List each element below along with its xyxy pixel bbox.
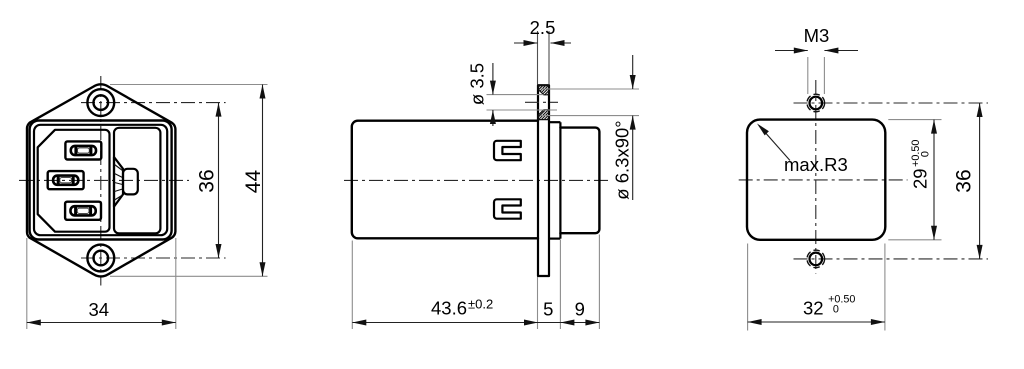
- dimension 34: [27, 322, 176, 324]
- front view flange outline: [27, 84, 175, 276]
- ext line 32 right: [884, 244, 886, 331]
- dimension 36 right: [979, 103, 981, 259]
- ext line 34 right: [175, 238, 177, 329]
- dimension 44: [262, 85, 264, 277]
- svg-text:43.6±0.2: 43.6±0.2: [431, 297, 493, 319]
- svg-text:ø 3.5: ø 3.5: [467, 63, 488, 105]
- svg-text:max.R3: max.R3: [784, 154, 848, 175]
- ext line 5/9 boundary: [559, 240, 561, 329]
- svg-text:32+0.500: 32+0.500: [803, 294, 855, 319]
- ext line dia6.3 bottom: [541, 115, 639, 117]
- dimension 43.6 / 5 / 9 line: [352, 322, 599, 324]
- front view bottom hole center line: [81, 257, 226, 259]
- front view body outer outline: [30, 121, 172, 240]
- dimension dia 3.5: [492, 63, 494, 95]
- bottom mounting hole inner: [94, 251, 109, 266]
- side view body outline: [352, 121, 538, 239]
- top mounting hole outer: [87, 89, 114, 116]
- svg-text:2.5: 2.5: [530, 17, 556, 38]
- front view top hole center line: [81, 102, 226, 104]
- rear view top hole center line: [794, 102, 989, 104]
- dimension 32: [748, 321, 885, 323]
- ext line 29 top: [888, 119, 941, 121]
- M3 thread top: [807, 94, 825, 112]
- max.R3 leader: [759, 126, 790, 161]
- top mounting hole inner: [94, 95, 109, 110]
- svg-text:29+0.500: 29+0.500: [909, 140, 931, 189]
- svg-text:9: 9: [575, 299, 585, 320]
- ext line 44 top: [110, 84, 268, 86]
- front view horizontal center line: [19, 179, 189, 181]
- side view horizontal center line: [344, 179, 611, 181]
- ext line 2.5 right: [548, 31, 550, 85]
- fuse holder recess outline: [114, 128, 160, 234]
- ext line dia3.5 bottom: [487, 109, 558, 111]
- ext line dia3.5 top: [487, 94, 544, 96]
- front view body inner outline: [34, 125, 167, 235]
- rear view horizontal center line: [739, 179, 908, 181]
- dimension 29: [933, 120, 935, 240]
- M3 hole top: [810, 97, 823, 110]
- fuse drawer tab knob: [123, 169, 138, 195]
- ext line M3 left: [807, 57, 809, 94]
- collar top edge: [549, 121, 560, 123]
- ext line dia6.3 top: [541, 88, 639, 90]
- rear section outline: [560, 128, 599, 234]
- flange hole center line: [525, 101, 558, 103]
- svg-text:34: 34: [89, 299, 110, 320]
- svg-text:5: 5: [543, 299, 553, 320]
- dimension M3: [775, 50, 808, 52]
- ext line 44 bottom: [110, 275, 268, 277]
- collar bottom edge: [549, 238, 560, 240]
- retaining clip lower: [494, 199, 521, 218]
- ext line 32 left: [747, 244, 749, 331]
- mounting flange section: [538, 85, 549, 276]
- dimension 36: [218, 103, 220, 258]
- ext line 34 left: [26, 238, 28, 329]
- ext line 9 right: [598, 235, 600, 330]
- pin middle: [48, 171, 84, 189]
- svg-text:36: 36: [196, 169, 219, 192]
- inlet recess outline: [38, 130, 110, 232]
- ext line 43.6 left: [351, 241, 353, 330]
- svg-text:36: 36: [953, 169, 976, 192]
- bottom mounting hole outer: [87, 245, 114, 272]
- dimension dia 6.3x90: [632, 55, 634, 89]
- svg-text:ø 6.3x90°: ø 6.3x90°: [612, 120, 633, 199]
- rear view bottom hole center line: [794, 258, 989, 260]
- front view vertical center line: [100, 76, 102, 286]
- svg-text:M3: M3: [804, 25, 830, 46]
- M3 hole bottom: [810, 253, 823, 266]
- rear view vertical center line: [815, 80, 817, 274]
- pin top (earth): [65, 141, 101, 159]
- fuse drawer tab trapezoid: [114, 157, 123, 207]
- pin bottom: [65, 202, 101, 220]
- svg-text:44: 44: [242, 170, 265, 194]
- ext line flange front below: [537, 277, 539, 329]
- countersink section top hatch: [538, 85, 549, 95]
- ext line M3 right: [823, 57, 825, 94]
- countersink section bottom hatch: [538, 110, 549, 120]
- ext line 2.5 left: [537, 31, 539, 85]
- M3 thread bottom: [807, 250, 825, 268]
- dimension 2.5: [514, 42, 538, 44]
- panel cutout outline: [747, 120, 885, 240]
- collar/rear step edge: [559, 122, 561, 238]
- retaining clip upper: [494, 141, 521, 160]
- ext line 29 bottom: [888, 239, 941, 241]
- fuse drawer tab ribs: [115, 165, 123, 171]
